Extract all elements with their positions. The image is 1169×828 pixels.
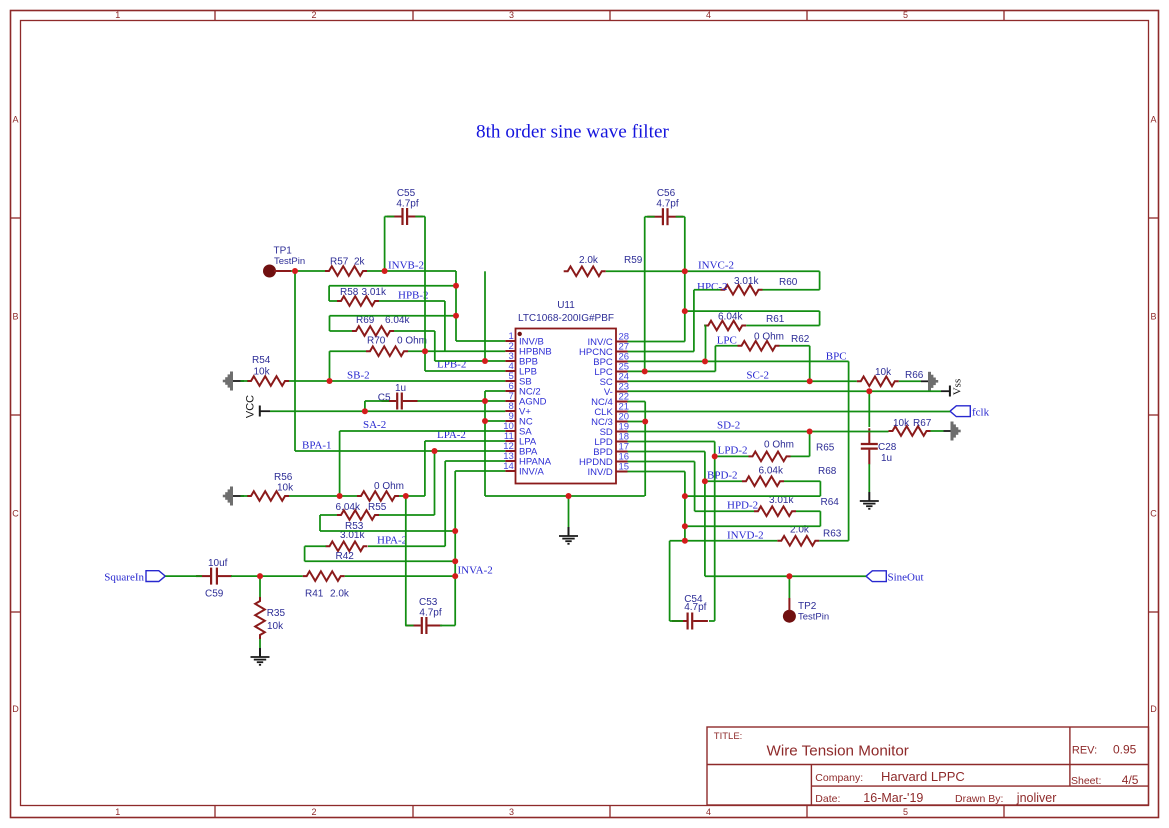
wire BPC row (705, 360, 849, 362)
svg-text:Harvard LPPC: Harvard LPPC (881, 769, 965, 784)
svg-text:4.7pf: 4.7pf (656, 199, 678, 210)
svg-text:10k: 10k (875, 367, 892, 378)
wire R55 right wire (399, 495, 425, 497)
svg-text:10k: 10k (254, 367, 271, 378)
U11 pin 20 stub (616, 421, 628, 423)
svg-text:BPD-2: BPD-2 (707, 470, 738, 482)
svg-text:R54: R54 (252, 355, 271, 366)
svg-text:R68: R68 (818, 466, 837, 477)
wire R59 right wire (606, 270, 685, 272)
svg-text:R67: R67 (913, 418, 932, 429)
U11 pin 14 stub (505, 470, 515, 472)
wire SquareIn to C59 (165, 575, 202, 577)
wire R63 right wire (819, 540, 848, 542)
svg-text:LPC: LPC (717, 335, 737, 347)
svg-text:0 Ohm: 0 Ohm (397, 336, 427, 347)
U11 pin 5 stub (505, 380, 515, 382)
wire R64 left wire (695, 510, 754, 512)
svg-text:SB-2: SB-2 (347, 370, 370, 382)
svg-text:SineOut: SineOut (888, 571, 924, 583)
svg-text:2: 2 (311, 10, 316, 20)
svg-text:10uf: 10uf (208, 558, 228, 569)
wire R65 right wire (791, 455, 810, 457)
wire C55 right lead (415, 216, 425, 218)
svg-text:LPD-2: LPD-2 (718, 445, 748, 457)
svg-text:0 Ohm: 0 Ohm (374, 481, 404, 492)
svg-text:LTC1068-200IG#PBF: LTC1068-200IG#PBF (518, 313, 614, 324)
junction at 789.4,576.2 (786, 573, 792, 579)
wire R69 right vertical (434, 331, 436, 361)
U11 pin 18 stub (616, 441, 628, 443)
junction at 455.2,576.1 (452, 573, 458, 579)
wire R59 left vertical (484, 271, 486, 361)
svg-text:0.95: 0.95 (1113, 743, 1137, 757)
svg-text:R61: R61 (766, 314, 785, 325)
svg-text:C28: C28 (878, 442, 897, 453)
svg-text:10k: 10k (267, 621, 284, 632)
wire R53 right vertical (434, 451, 436, 515)
wire C53 right wire (440, 625, 455, 627)
wire R58 top row (329, 285, 456, 287)
junction at 644.7,371.4 (642, 368, 648, 374)
op-amp U11 LTC1068-200IG#PBF body (516, 329, 617, 484)
svg-text:Vss: Vss (952, 379, 964, 396)
svg-text:Drawn By:: Drawn By: (955, 793, 1003, 805)
svg-text:3.01k: 3.01k (362, 287, 387, 298)
junction at 485,421 (482, 418, 488, 424)
wire HPD vertical (694, 462, 696, 512)
U11 pin 1 stub (505, 340, 515, 342)
resistor R61 (704, 321, 746, 331)
wire C59 to junction (231, 575, 260, 577)
svg-text:3: 3 (509, 807, 514, 817)
svg-text:R69: R69 (356, 315, 375, 326)
svg-text:INVD-2: INVD-2 (727, 530, 764, 542)
TP1 pin lead (274, 270, 291, 272)
junction at 260,576.1 (257, 573, 263, 579)
wire pin16 row (628, 461, 695, 463)
wire R57 to INVB node (367, 270, 385, 272)
wire LPA-2 row (425, 440, 505, 442)
svg-text:R58: R58 (340, 287, 359, 298)
ground symbol (R67 right) (944, 430, 953, 432)
svg-text:R63: R63 (823, 529, 842, 540)
wire CLK row to fclk (628, 411, 951, 413)
wire BPA row to pin12 (435, 450, 506, 452)
svg-text:Sheet:: Sheet: (1071, 775, 1101, 787)
resistor R62 (738, 341, 780, 351)
wire pin20 row (628, 421, 646, 423)
wire SB-2 row to pin5 (330, 380, 506, 382)
wire R62 left wire (715, 345, 737, 347)
svg-text:2: 2 (311, 807, 316, 817)
svg-text:R70: R70 (367, 336, 386, 347)
U11 pin 4 stub (505, 370, 515, 372)
svg-text:C55: C55 (397, 188, 416, 199)
svg-text:TP1: TP1 (274, 246, 293, 257)
wire SD-2 row (628, 431, 810, 433)
svg-text:B: B (1150, 312, 1156, 322)
svg-text:C: C (1150, 509, 1157, 519)
wire R54 left stub (241, 380, 248, 382)
svg-text:TP2: TP2 (798, 601, 817, 612)
wire INVB corner to pin1 (456, 340, 505, 342)
wire R68 right vertical (819, 481, 821, 496)
junction at 485,401 (482, 398, 488, 404)
capacitor C53 (406, 625, 421, 627)
wire R69 right wire (394, 330, 435, 332)
wire BPD-2 row (705, 480, 742, 482)
capacitor C54 (672, 620, 687, 622)
wire C5 right wire (418, 400, 486, 402)
wire C54 left wire (670, 620, 683, 622)
U11 pin 21 stub (616, 411, 628, 413)
svg-text:SA-2: SA-2 (363, 419, 386, 431)
wire pin25 row (628, 370, 716, 372)
svg-text:R64: R64 (821, 497, 840, 508)
svg-text:INV/A: INV/A (519, 466, 544, 477)
svg-text:D: D (1150, 704, 1157, 714)
wire R68 loop row (685, 495, 821, 497)
wire TP1 vertical (294, 271, 296, 451)
svg-text:Wire Tension Monitor: Wire Tension Monitor (767, 743, 909, 760)
wire R69 left lead wire (330, 330, 353, 332)
wire C56 left lead (645, 216, 655, 218)
TP2 pin lead (788, 598, 790, 611)
junction at 434.5,451 (432, 448, 438, 454)
wire SA-2 row (340, 430, 506, 432)
wire R64 right wire (796, 510, 820, 512)
svg-text:1u: 1u (881, 453, 892, 464)
U11 pin 28 stub (616, 341, 628, 343)
resistor R41 (303, 571, 345, 581)
wire R58 right wire (379, 300, 445, 302)
U11 pin 8 stub (505, 410, 515, 412)
junction at 485,361 (482, 358, 488, 364)
U11 pin 3 stub (505, 360, 515, 362)
svg-text:4: 4 (706, 10, 711, 20)
svg-text:C53: C53 (419, 597, 438, 608)
U11 pin 10 stub (505, 430, 515, 432)
svg-text:6.04k: 6.04k (385, 315, 410, 326)
U11 pin 6 stub (505, 390, 515, 392)
svg-text:TestPin: TestPin (274, 256, 305, 267)
wire AGND ground stem (568, 496, 570, 527)
wire R58 left loop vertical (328, 286, 330, 301)
U11 pin-1 marker dot (518, 332, 522, 336)
wire V- row (628, 390, 942, 392)
svg-text:HPC-2: HPC-2 (697, 281, 728, 293)
wire BPC vertical (848, 361, 850, 540)
wire R70 left vertical (329, 351, 331, 381)
wire R42 right wire (368, 545, 445, 547)
wire pin28 row (628, 341, 685, 343)
wire INVD vertical (684, 472, 686, 541)
wire pin3 row (435, 360, 506, 362)
wire R35 bottom stem (259, 639, 261, 648)
junction at 809.6,431.5 (807, 429, 813, 435)
resistor R56 (247, 491, 289, 501)
capacitor C28 (868, 428, 870, 443)
svg-text:R35: R35 (267, 608, 286, 619)
junction at 339.6,496 (337, 493, 343, 499)
ground symbol (below AGND row) (568, 527, 570, 536)
U11 pin 19 stub (616, 431, 628, 433)
svg-text:10k: 10k (277, 483, 294, 494)
ground symbol (R66 right) (921, 380, 930, 382)
wire pin4 row (425, 370, 505, 372)
resistor R42 (326, 542, 368, 552)
svg-text:HPA-2: HPA-2 (377, 535, 407, 547)
svg-text:R59: R59 (624, 255, 643, 266)
svg-text:1: 1 (115, 10, 120, 20)
svg-text:3.01k: 3.01k (734, 276, 759, 287)
wire AGND row (485, 495, 645, 497)
wire pin17 row (628, 451, 705, 453)
U11 pin 2 stub (505, 350, 515, 352)
resistor R63 (777, 536, 819, 546)
svg-text:4/5: 4/5 (1122, 773, 1139, 787)
svg-text:TestPin: TestPin (798, 612, 829, 623)
wire LPD vertical (714, 442, 716, 621)
wire pin7 row (485, 400, 505, 402)
svg-text:fclk: fclk (972, 406, 990, 418)
junction at 295,271 (292, 268, 298, 274)
junction at 684.9,526.3 (682, 523, 688, 529)
resistor R68 (742, 476, 784, 486)
svg-text:C: C (12, 509, 19, 519)
wire C5 left wire (365, 400, 389, 402)
resistor R57 (325, 266, 367, 276)
svg-text:2.0k: 2.0k (579, 255, 599, 266)
svg-text:R56: R56 (274, 472, 293, 483)
capacitor C55 (387, 216, 402, 218)
wire R70 left wire (330, 350, 367, 352)
resistor R58 (337, 296, 379, 306)
resistor R54 (247, 376, 289, 386)
wire R35 top stem (259, 576, 261, 597)
svg-text:INVB-2: INVB-2 (388, 260, 424, 272)
U11 pin 17 stub (616, 451, 628, 453)
wire R62 left vertical (714, 346, 716, 372)
capacitor C5 (382, 400, 397, 402)
testpoint TP2 pad (783, 610, 796, 623)
junction at 809.7,381.3 (807, 378, 813, 384)
wire R54 to SB junction (289, 380, 330, 382)
wire pin14 row (455, 470, 505, 472)
svg-text:B: B (12, 312, 18, 322)
U11 pin 24 stub (616, 381, 628, 383)
svg-text:4.7pf: 4.7pf (684, 602, 706, 613)
svg-text:R66: R66 (905, 370, 924, 381)
wire pin2 row (425, 350, 505, 352)
svg-text:6.04k: 6.04k (336, 502, 361, 513)
wire R67 right wire (931, 430, 944, 432)
wire R53 loop row (320, 530, 455, 532)
wire INVB vertical (455, 271, 457, 341)
wire R64 right vertical (819, 511, 821, 526)
wire BPD vertical (704, 452, 706, 577)
wire C55 left vertical (384, 217, 386, 272)
wire pin18 row (628, 441, 715, 443)
wire C56 left vertical (644, 217, 646, 372)
svg-text:HPB-2: HPB-2 (398, 290, 429, 302)
svg-text:REV:: REV: (1072, 745, 1097, 757)
resistor R60 (721, 285, 763, 295)
wire C28 top vertical (868, 391, 870, 427)
svg-text:16-Mar-'19: 16-Mar-'19 (863, 791, 923, 805)
svg-text:0 Ohm: 0 Ohm (764, 440, 794, 451)
wire TP1 to R57 (291, 270, 325, 272)
wire R62 right wire (780, 345, 810, 347)
resistor R67 (889, 426, 931, 436)
svg-text:6.04k: 6.04k (759, 466, 784, 477)
resistor R59 (564, 267, 606, 277)
output flag SineOut (866, 571, 886, 582)
wire SineOut row (705, 575, 866, 577)
svg-text:C56: C56 (657, 188, 676, 199)
wire R69 left loop vertical (329, 316, 331, 331)
svg-text:4.7pf: 4.7pf (419, 608, 441, 619)
wire C5 tap vertical (364, 401, 366, 411)
wire R61 loop row (685, 310, 820, 312)
svg-text:Company:: Company: (815, 772, 863, 784)
wire INVD-2 row (670, 540, 778, 542)
junction at 384.6,271 (382, 268, 388, 274)
svg-text:2.0k: 2.0k (330, 589, 350, 600)
svg-text:8th order sine wave filter: 8th order sine wave filter (476, 122, 669, 143)
svg-text:R65: R65 (816, 443, 835, 454)
svg-text:10k: 10k (893, 418, 910, 429)
resistor R69 (352, 326, 394, 336)
wire R56 to R55 junction (289, 495, 357, 497)
wire R53 left lead wire (320, 514, 337, 516)
ground symbol (R56 left) (232, 495, 245, 497)
wire R42 left loop vertical (304, 546, 306, 561)
junction at 568.5,496 (566, 493, 572, 499)
svg-text:4.7pf: 4.7pf (396, 199, 418, 210)
svg-text:0 Ohm: 0 Ohm (754, 332, 784, 343)
svg-text:D: D (12, 704, 19, 714)
wire SA-2 vertical (339, 431, 341, 496)
wire R62 right vertical (809, 346, 811, 382)
wire R58 right vertical (444, 301, 446, 351)
U11 pin 15 stub (616, 471, 628, 473)
svg-text:R60: R60 (779, 277, 798, 288)
wire pin9 row (485, 420, 505, 422)
wire R60 left vertical (693, 290, 695, 352)
wire R61 left wire (704, 325, 705, 327)
svg-text:5: 5 (903, 807, 908, 817)
wire R61 left vertical (705, 326, 707, 362)
U11 pin 26 stub (616, 361, 628, 363)
svg-text:15: 15 (619, 462, 630, 473)
junction at 714.7,456.4 (712, 453, 718, 459)
U11 pin 7 stub (505, 400, 515, 402)
power symbol VCC (259, 406, 261, 417)
wire R60 right wire (763, 289, 820, 291)
wire SD-2 row to R67 (810, 431, 889, 433)
svg-text:HPD-2: HPD-2 (727, 500, 758, 512)
output flag fclk (950, 406, 970, 417)
capacitor C56 (647, 216, 662, 218)
junction at 329.5,381 (327, 378, 333, 384)
resistor R53 (337, 510, 379, 520)
wire VCC row to pin8 (270, 410, 505, 412)
junction at 405.8,496 (403, 493, 409, 499)
junction at 425,351.2 (422, 348, 428, 354)
svg-text:C59: C59 (205, 589, 224, 600)
wire pin15 row (628, 471, 685, 473)
wire C54 right wire (709, 620, 715, 622)
U11 pin 22 stub (616, 401, 628, 403)
svg-text:2k: 2k (354, 257, 366, 268)
wire R60 left wire (694, 289, 721, 291)
wire R56 left stub (241, 495, 248, 497)
svg-text:TITLE:: TITLE: (714, 731, 743, 742)
wire INVC-2 row (685, 270, 820, 272)
svg-text:3: 3 (509, 10, 514, 20)
wire pin27 row (628, 351, 694, 353)
junction at 684.8,271.3 (682, 268, 688, 274)
svg-text:5: 5 (903, 10, 908, 20)
U11 pin 12 stub (505, 450, 515, 452)
U11 pin 23 stub (616, 391, 628, 393)
svg-text:SquareIn: SquareIn (104, 571, 144, 583)
svg-text:1: 1 (115, 807, 120, 817)
wire R55 node vertical (405, 496, 407, 626)
resistor R65 (749, 452, 791, 462)
power symbol Vss (949, 386, 951, 397)
svg-text:R41: R41 (305, 589, 324, 600)
junction at 684.9,540.8 (682, 538, 688, 544)
junction at 456,315.7 (453, 313, 459, 319)
svg-text:Date:: Date: (815, 793, 840, 805)
svg-text:R42: R42 (336, 551, 355, 562)
wire HPA vertical (444, 461, 446, 546)
wire R68 right wire (784, 480, 820, 482)
wire R53 right wire (379, 514, 435, 516)
U11 pin 25 stub (616, 371, 628, 373)
wire R41 to INVA node (345, 575, 456, 577)
wire R60 right vertical (819, 271, 821, 290)
svg-text:VCC: VCC (245, 395, 257, 418)
wire C56 right vertical (684, 217, 686, 342)
resistor R64 (754, 506, 796, 516)
resistor R55 (357, 491, 399, 501)
junction at 869.3,391.2 (866, 388, 872, 394)
ground symbol (R54 left) (232, 380, 245, 382)
junction at 456,285.7 (453, 283, 459, 289)
U11 pin 27 stub (616, 351, 628, 353)
resistor R70 (366, 346, 408, 356)
svg-text:4: 4 (706, 807, 711, 817)
svg-text:INV/D: INV/D (587, 467, 612, 478)
wire R42 left lead wire (305, 545, 326, 547)
U11 pin 9 stub (505, 420, 515, 422)
svg-text:1u: 1u (395, 383, 406, 394)
resistor R35 (255, 597, 265, 639)
wire R61 right wire (746, 325, 819, 327)
junction at 455.2,561.3 (452, 558, 458, 564)
wire pin22 row (628, 401, 646, 403)
svg-text:INVA-2: INVA-2 (458, 565, 493, 577)
U11 pin 16 stub (616, 461, 628, 463)
wire pin6 corner vertical (484, 391, 486, 496)
wire C55 left lead (385, 216, 395, 218)
svg-text:SC-2: SC-2 (746, 370, 769, 382)
wire junction to R41 (260, 575, 303, 577)
